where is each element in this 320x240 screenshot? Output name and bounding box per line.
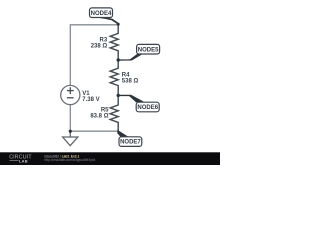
svg-text:LAB: LAB [19, 158, 28, 163]
svg-text:NODE5: NODE5 [138, 47, 159, 53]
svg-text:NODE7: NODE7 [120, 140, 141, 146]
svg-text:NODE6: NODE6 [137, 105, 158, 111]
svg-text:http://circuitlab.com/c/4gsvu6: http://circuitlab.com/c/4gsvu69r3yb4 [45, 158, 96, 162]
svg-text:7.38 V: 7.38 V [82, 97, 99, 103]
svg-text:V1: V1 [82, 91, 90, 97]
svg-text:238 Ω: 238 Ω [91, 43, 108, 49]
svg-text:538 Ω: 538 Ω [122, 78, 139, 84]
svg-text:NODE4: NODE4 [91, 11, 112, 17]
svg-text:83.8 Ω: 83.8 Ω [90, 113, 108, 119]
